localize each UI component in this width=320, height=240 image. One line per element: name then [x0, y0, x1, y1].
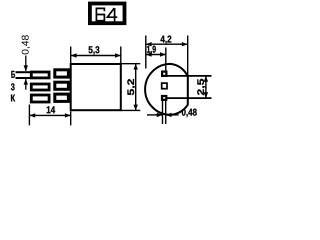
dim 14 extension left — [28, 105, 30, 126]
dim 5,2 extension bottom — [121, 109, 141, 111]
dim 4,2 extension right (flat edge) — [187, 36, 189, 78]
dim 0,48 label (bottom view) — [182, 109, 197, 118]
dim 4,2 arrow right — [182, 42, 188, 46]
dim 0,48 (bottom view) right line — [166, 114, 179, 116]
figure number digit 4 — [107, 8, 117, 22]
body side view — [71, 64, 121, 110]
lead 2 thick section — [55, 82, 69, 89]
dim 2,5 line — [205, 76, 207, 98]
dim 5,2 line — [135, 64, 137, 111]
dim 0,48 (bottom view) right arrow — [166, 113, 172, 117]
can bottom view (D-shape) — [145, 64, 188, 115]
dim 14 extension right — [70, 111, 72, 125]
figure number box — [90, 4, 125, 24]
dim 1,9 label — [147, 46, 156, 55]
dim 0,48 upper arrow head — [24, 65, 28, 71]
dim 5,3 extension right — [120, 47, 122, 64]
pin label Б — [11, 71, 15, 78]
dim 5,3 arrow left — [71, 53, 77, 57]
dim 4,2 label — [160, 36, 171, 45]
figure number digit 6 — [96, 8, 104, 20]
dim 1,9 line — [146, 54, 166, 56]
dim 2,5 extension top — [167, 75, 212, 77]
pin label З — [11, 83, 15, 90]
dim 0,48 lead extension bottom — [16, 77, 31, 79]
dim 0,48 lead extension top — [16, 71, 31, 73]
dim 0,48 (bottom view) left arrow — [157, 113, 163, 117]
dim 0,48 lower arrow head — [24, 79, 28, 85]
dim 0,48 upper arrow line — [25, 56, 27, 71]
dim 5,3 extension left — [70, 47, 72, 64]
dim 5,2 arrow down — [134, 105, 138, 111]
dim 1,9 arrow right — [160, 52, 166, 56]
dim 5,3 line — [71, 55, 121, 57]
dim 14 line — [29, 114, 70, 116]
dim 2,5 arrow down — [204, 92, 208, 98]
dim 14 arrow right — [65, 113, 71, 117]
pin pad 2 (square) — [162, 83, 167, 89]
dim 2,5 label — [197, 79, 205, 95]
lead 3 thick section — [55, 94, 69, 101]
pin pad 3 (square) — [162, 96, 166, 100]
pin pad 1 (square) — [162, 72, 166, 76]
dim 5,2 label — [127, 79, 135, 95]
lead 3 thin section — [31, 95, 49, 102]
dim 0,48 label (left view) — [22, 35, 30, 54]
dim 2,5 arrow up — [204, 76, 208, 82]
dim 4,2 line — [146, 43, 188, 45]
pin stem right line — [165, 101, 167, 124]
dim 0,48 lower arrow line — [25, 79, 27, 90]
dim 14 label — [47, 106, 55, 113]
dim 4,2 extension left — [145, 36, 147, 69]
dim 5,3 label — [89, 46, 100, 55]
lead 1 thin section — [31, 72, 49, 78]
dim 2,5 extension bottom — [167, 97, 212, 99]
dim 5,3 arrow right — [115, 53, 121, 57]
pin label К — [11, 95, 15, 102]
dim 14 arrow left — [29, 113, 35, 117]
dim 1,9 extension right — [165, 48, 167, 71]
lead 2 thin section — [31, 84, 49, 90]
dim 0,48 (bottom view) left line — [147, 114, 163, 116]
lead 1 thick section — [55, 70, 69, 77]
dim 4,2 arrow left — [146, 42, 152, 46]
dim 5,2 arrow up — [134, 64, 138, 70]
dim 5,2 extension top — [121, 63, 141, 65]
pin stem left line — [162, 101, 164, 124]
dim 1,9 arrow left — [146, 52, 152, 56]
